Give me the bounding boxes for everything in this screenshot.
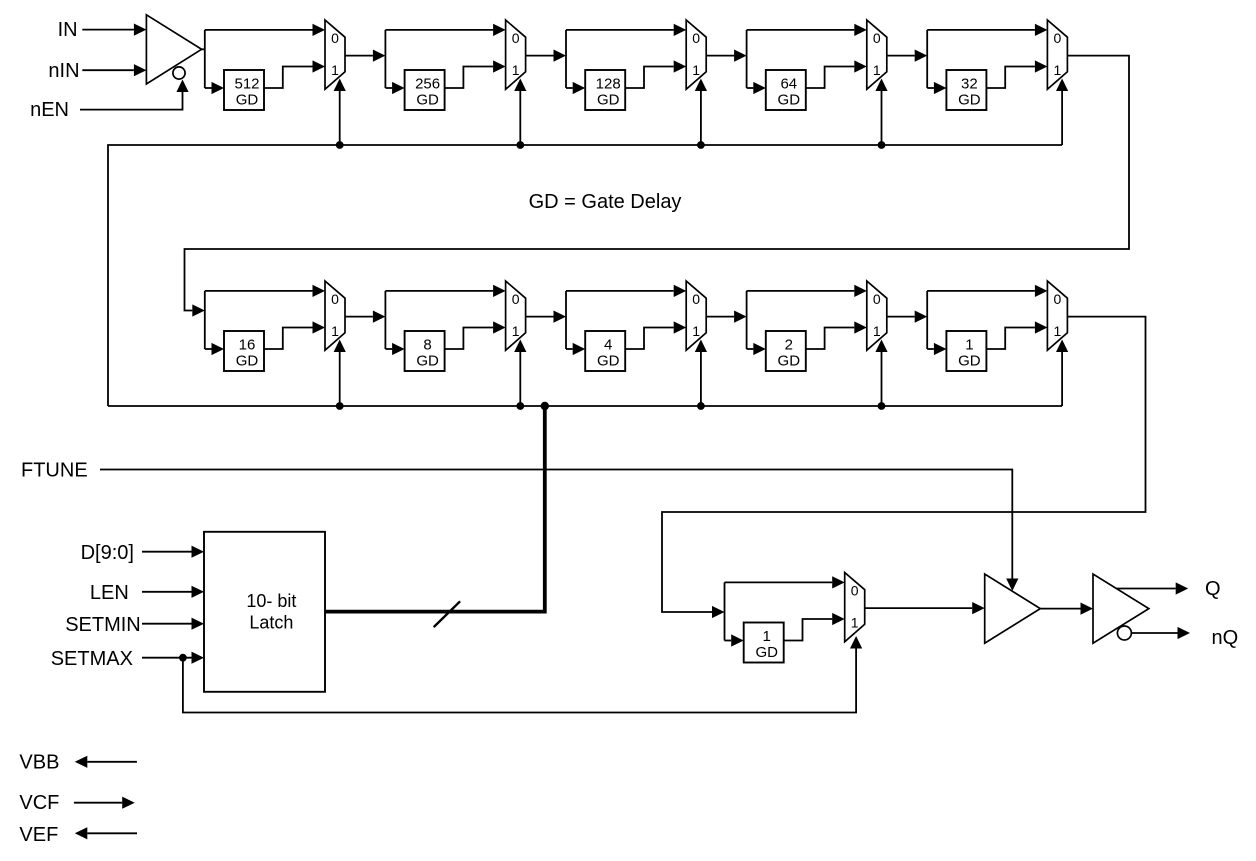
wire: R2S3 delay box output to mux 1 input <box>625 328 674 350</box>
wire: R2S3 bypass branch to mux 0 input <box>566 290 674 292</box>
svg-text:1: 1 <box>512 323 520 339</box>
wire: vernier mux output to output buffer <box>865 607 973 609</box>
wire: R2S4 input fan-out vertical <box>746 291 748 349</box>
mux R2S3 (2:1) <box>686 281 706 350</box>
wire: R2S2 bypass branch to mux 0 input <box>385 290 493 292</box>
output buffer U4 (complementary outputs) <box>1093 574 1149 643</box>
junction: R2S4 select tap <box>878 402 886 410</box>
svg-text:1: 1 <box>692 323 700 339</box>
delay box 4 GD <box>585 331 625 371</box>
svg-text:GD: GD <box>755 644 778 661</box>
svg-text:0: 0 <box>1054 30 1062 46</box>
wire: R2S4 bypass branch to mux 0 input <box>747 290 855 292</box>
svg-text:1: 1 <box>873 323 881 339</box>
svg-text:GD: GD <box>778 92 801 109</box>
delay box 1 GD <box>946 331 986 371</box>
wire: R1S5 bypass branch to mux 0 input <box>927 29 1035 31</box>
svg-text:D[9:0]: D[9:0] <box>81 542 134 564</box>
wire: Q output <box>1116 588 1175 590</box>
svg-text:IN: IN <box>58 19 78 41</box>
enable bubble on input buffer <box>173 67 185 79</box>
output buffer U3 <box>985 574 1041 643</box>
mux R1S4 (2:1) <box>867 20 887 89</box>
svg-text:0: 0 <box>331 30 339 46</box>
junction: latch bus joins row-2 select bus <box>541 402 549 410</box>
svg-text:0: 0 <box>1054 291 1062 307</box>
delay box 1 GD <box>744 623 784 663</box>
svg-text:nIN: nIN <box>48 60 79 82</box>
svg-text:GD: GD <box>597 92 620 109</box>
wire: R1S1 mux select line from bus <box>339 91 341 145</box>
mux VERN (2:1) <box>845 573 865 642</box>
wire: R1S5 delay box output to mux 1 input <box>986 67 1035 89</box>
svg-text:1: 1 <box>1054 62 1062 78</box>
delay box 32 GD <box>946 70 986 110</box>
junction: R1S1 select tap <box>336 141 344 149</box>
wire: R1S2 bypass branch to mux 0 input <box>385 29 493 31</box>
wire: row-2 output down and across to vernier stage input <box>662 317 1146 612</box>
svg-text:GD = Gate Delay: GD = Gate Delay <box>529 191 682 213</box>
delay box 16 GD <box>224 331 264 371</box>
wire: R1S4 delay box output to mux 1 input <box>806 67 855 89</box>
wire: R1S4 mux output to next stage <box>887 55 915 57</box>
mux R1S1 (2:1) <box>325 20 345 89</box>
wire: VEF arrow (out) <box>87 832 137 834</box>
wire: IN to input buffer <box>82 29 134 31</box>
inversion bubble on U4 nQ output <box>1117 626 1131 640</box>
wire: R1S4 bypass branch to mux 0 input <box>747 29 855 31</box>
svg-text:4: 4 <box>604 337 612 354</box>
svg-text:1: 1 <box>851 614 859 630</box>
svg-text:1: 1 <box>763 628 771 645</box>
delay box 64 GD <box>766 70 806 110</box>
wire: R2S4 mux select line from bus <box>881 352 883 406</box>
wire: R2S2 mux output to next stage <box>526 316 554 318</box>
svg-text:1: 1 <box>512 62 520 78</box>
wire: VERN branch into delay box <box>725 640 732 642</box>
wire: R1S4 branch into delay box <box>747 87 754 89</box>
junction: R2S3 select tap <box>697 402 705 410</box>
wire: R1S2 mux output to next stage <box>526 55 554 57</box>
wire: R1S1 branch into delay box <box>205 87 212 89</box>
latch U2: 10-bit latch box <box>204 532 325 692</box>
wire: FTUNE to output buffer fine-tune input <box>100 470 1012 579</box>
svg-text:1: 1 <box>873 62 881 78</box>
svg-text:FTUNE: FTUNE <box>21 460 88 482</box>
wire: R2S5 branch into delay box <box>927 348 934 350</box>
svg-text:0: 0 <box>331 291 339 307</box>
svg-text:SETMIN: SETMIN <box>65 614 141 636</box>
wire: R1S5 input fan-out vertical <box>926 30 928 88</box>
svg-text:GD: GD <box>597 353 620 370</box>
wire: R2S1 mux output to next stage <box>345 316 373 318</box>
wire: R1S1 input fan-out vertical <box>204 30 206 88</box>
wire: R2S5 mux select line from bus <box>1061 352 1063 406</box>
wire: nQ output <box>1131 632 1177 634</box>
svg-text:0: 0 <box>692 291 700 307</box>
wire: R2S1 input fan-out vertical <box>204 291 206 349</box>
wire: R1S1 mux output to next stage <box>345 55 373 57</box>
svg-text:256: 256 <box>415 76 440 93</box>
mux R2S1 (2:1) <box>325 281 345 350</box>
wire: R1S2 input fan-out vertical <box>384 30 386 88</box>
delay box 128 GD <box>585 70 625 110</box>
wire: R2S1 delay box output to mux 1 input <box>264 328 313 350</box>
wire: R1S5 mux select line from bus <box>1061 91 1063 145</box>
svg-text:GD: GD <box>416 353 439 370</box>
svg-text:1: 1 <box>1054 323 1062 339</box>
wire: LEN into latch <box>142 591 192 593</box>
wire: R2S3 mux select line from bus <box>700 352 702 406</box>
svg-text:8: 8 <box>423 337 431 354</box>
junction: R2S2 select tap <box>516 402 524 410</box>
wire: SETMAX into latch <box>142 657 192 659</box>
svg-text:0: 0 <box>873 30 881 46</box>
wire: VERN input fan-out vertical <box>724 582 726 640</box>
wire: R2S3 input fan-out vertical <box>565 291 567 349</box>
svg-text:0: 0 <box>692 30 700 46</box>
mux R2S4 (2:1) <box>867 281 887 350</box>
junction: R2S1 select tap <box>336 402 344 410</box>
wire: VBB arrow (out) <box>87 761 137 763</box>
svg-text:LEN: LEN <box>90 582 129 604</box>
svg-text:1: 1 <box>331 62 339 78</box>
svg-text:SETMAX: SETMAX <box>51 648 133 670</box>
mux R1S3 (2:1) <box>686 20 706 89</box>
svg-text:32: 32 <box>961 76 978 93</box>
wire: R2S5 bypass branch to mux 0 input <box>927 290 1035 292</box>
wire: R2S1 mux select line from bus <box>339 352 341 406</box>
wire: R1S2 branch into delay box <box>385 87 392 89</box>
wire: row-2 mux select bus <box>108 405 1062 407</box>
svg-text:64: 64 <box>780 76 797 93</box>
svg-text:GD: GD <box>778 353 801 370</box>
wire: R1S5 branch into delay box <box>927 87 934 89</box>
junction: SETMAX tap <box>179 654 187 662</box>
svg-text:10- bit: 10- bit <box>246 591 296 611</box>
wire: R1S2 delay box output to mux 1 input <box>445 67 494 89</box>
wire: R1S3 bypass branch to mux 0 input <box>566 29 674 31</box>
svg-text:GD: GD <box>236 353 259 370</box>
wire: SETMIN into latch <box>142 623 192 625</box>
wire: VERN bypass branch to mux 0 input <box>725 581 833 583</box>
bus width slash mark <box>434 601 460 627</box>
svg-text:VCF: VCF <box>19 792 59 814</box>
wire: R1S4 mux select line from bus <box>881 91 883 145</box>
wire: row-1 mux select bus (left drop to row 2) <box>108 145 1062 406</box>
svg-text:0: 0 <box>873 291 881 307</box>
wire: R1S3 mux select line from bus <box>700 91 702 145</box>
bus: 10-bit latch output (thick) to select buses <box>325 406 545 612</box>
svg-text:0: 0 <box>851 583 859 599</box>
wire: buffer U3 to buffer U4 <box>1040 608 1080 610</box>
svg-text:VEF: VEF <box>19 824 58 846</box>
mux R2S5 (2:1) <box>1047 281 1067 350</box>
wire: R1S1 delay box output to mux 1 input <box>264 67 313 89</box>
wire: R1S2 mux select line from bus <box>519 91 521 145</box>
svg-text:16: 16 <box>239 337 256 354</box>
wire: R1S3 input fan-out vertical <box>565 30 567 88</box>
svg-text:nQ: nQ <box>1212 627 1239 649</box>
delay box 512 GD <box>224 70 264 110</box>
wire: D[9:0] into latch <box>142 551 192 553</box>
wire: R1S3 mux output to next stage <box>706 55 734 57</box>
wire: nEN to enable bubble <box>80 92 183 110</box>
wire: R2S2 delay box output to mux 1 input <box>445 328 494 350</box>
wire: VCF arrow (in) <box>74 802 122 804</box>
junction: R1S4 select tap <box>878 141 886 149</box>
delay box 2 GD <box>766 331 806 371</box>
wire: row-1 output down and across to row 2 input <box>185 56 1130 311</box>
delay box 8 GD <box>405 331 445 371</box>
wire: R1S1 bypass branch to mux 0 input <box>205 29 313 31</box>
svg-text:1: 1 <box>331 323 339 339</box>
mux R1S5 (2:1) <box>1047 20 1067 89</box>
svg-text:nEN: nEN <box>30 99 69 121</box>
wire: input buffer output stub <box>202 48 205 50</box>
svg-text:GD: GD <box>236 92 259 109</box>
svg-text:GD: GD <box>958 92 981 109</box>
svg-text:GD: GD <box>958 353 981 370</box>
mux R2S2 (2:1) <box>506 281 526 350</box>
wire: R2S5 delay box output to mux 1 input <box>986 328 1035 350</box>
wire: R2S2 mux select line from bus <box>519 352 521 406</box>
wire: R2S4 mux output to next stage <box>887 316 915 318</box>
wire: R2S1 bypass branch to mux 0 input <box>205 290 313 292</box>
wire: VERN delay box output to mux 1 input <box>784 619 833 641</box>
junction: R1S2 select tap <box>516 141 524 149</box>
svg-text:Latch: Latch <box>249 612 293 632</box>
input buffer U1 (differential input stage) <box>146 15 201 84</box>
svg-text:512: 512 <box>234 76 259 93</box>
wire: R2S3 mux output to next stage <box>706 316 734 318</box>
svg-text:2: 2 <box>785 337 793 354</box>
wire: R2S5 input fan-out vertical <box>926 291 928 349</box>
svg-text:1: 1 <box>692 62 700 78</box>
wire: R2S1 branch into delay box <box>205 348 212 350</box>
wire: R2S4 delay box output to mux 1 input <box>806 328 855 350</box>
svg-text:GD: GD <box>416 92 439 109</box>
svg-text:VBB: VBB <box>19 752 59 774</box>
svg-text:128: 128 <box>596 76 621 93</box>
mux R1S2 (2:1) <box>506 20 526 89</box>
wire: R2S3 branch into delay box <box>566 348 573 350</box>
wire: nIN to input buffer <box>82 69 134 71</box>
wire: R1S3 delay box output to mux 1 input <box>625 67 674 89</box>
wire: R2S2 input fan-out vertical <box>384 291 386 349</box>
svg-text:1: 1 <box>965 337 973 354</box>
delay box 256 GD <box>405 70 445 110</box>
wire: R2S4 branch into delay box <box>747 348 754 350</box>
wire: R1S3 branch into delay box <box>566 87 573 89</box>
svg-text:Q: Q <box>1205 578 1221 600</box>
junction: R1S3 select tap <box>697 141 705 149</box>
svg-text:0: 0 <box>512 30 520 46</box>
wire: R2S2 branch into delay box <box>385 348 392 350</box>
wire: SETMAX down and across to vernier mux select <box>183 649 856 713</box>
wire: R1S4 input fan-out vertical <box>746 30 748 88</box>
svg-text:0: 0 <box>512 291 520 307</box>
